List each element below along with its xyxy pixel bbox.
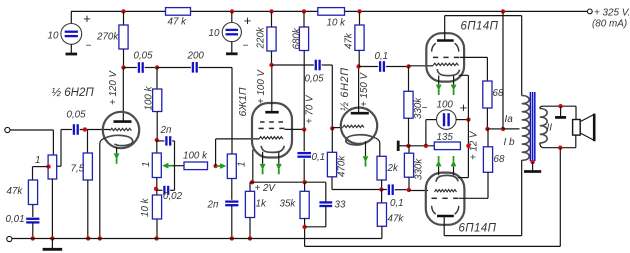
node plate V2 <box>356 64 360 68</box>
svg-text:1k: 1k <box>256 199 267 210</box>
triode V2 cathode <box>346 135 374 145</box>
svg-text:135: 135 <box>437 132 454 143</box>
potentiometer 1M volume P1 <box>48 155 57 179</box>
svg-text:0,01: 0,01 <box>6 214 25 225</box>
svg-text:47k: 47k <box>388 214 405 225</box>
svg-text:68: 68 <box>493 88 504 99</box>
tube VL2 cathode <box>436 175 458 181</box>
node core ground <box>530 160 534 164</box>
svg-text:0,1: 0,1 <box>312 152 326 163</box>
wire plate V2 riser <box>358 67 360 114</box>
triode V1 plate <box>114 120 132 123</box>
triode V1 envelope <box>103 112 139 148</box>
resistor 68 lower <box>487 129 489 147</box>
capacitor 200 <box>157 67 191 69</box>
pentode suppressor dashes <box>260 121 265 123</box>
node P2 ground <box>230 236 234 240</box>
capacitor 100u electrolytic <box>437 110 457 130</box>
node upper grid <box>406 64 410 68</box>
pentode screen dashes <box>259 127 264 129</box>
wire P1 tap to 0,05 grid cap <box>57 165 61 167</box>
pentode plate <box>265 111 278 114</box>
node cathode bus 135 <box>466 144 470 148</box>
svg-text:100: 100 <box>437 100 454 111</box>
tube VL2 envelope <box>426 173 465 225</box>
wire grid V2 <box>332 127 342 129</box>
wiper arrow P3 <box>162 163 168 169</box>
wire pentode cathode node <box>250 180 254 184</box>
resistor 100k horizontal <box>184 162 208 170</box>
wire center tap <box>503 128 520 130</box>
svg-text:−: − <box>243 41 249 52</box>
svg-text:Iа: Iа <box>505 114 514 125</box>
wire 470k to 2k node <box>332 189 381 191</box>
svg-text:47k: 47k <box>344 32 355 49</box>
resistor 470k <box>331 128 333 152</box>
wire VL1 screen <box>460 56 488 58</box>
terminal input signal <box>5 127 10 132</box>
svg-text:+ 100 V: + 100 V <box>256 68 267 104</box>
wire 100k divider <box>156 68 158 90</box>
node e-cap minus riser <box>424 144 428 148</box>
svg-text:100 k: 100 k <box>183 151 208 162</box>
svg-text:200: 200 <box>187 51 205 62</box>
node wiper junction <box>213 164 217 168</box>
resistor 35k feedback <box>304 182 306 191</box>
triode V2 envelope <box>341 108 377 144</box>
node triode V1 plate <box>121 65 125 69</box>
tube VL1 cathode <box>437 69 459 75</box>
svg-text:6Ж1П: 6Ж1П <box>237 87 249 116</box>
svg-text:100 k: 100 k <box>144 85 155 110</box>
svg-text:−: − <box>86 41 92 52</box>
resistor 68 upper <box>483 81 492 108</box>
wire secondary bottom <box>540 143 576 148</box>
node center tap feed <box>501 127 505 131</box>
node secondary bottom feedback <box>558 146 562 150</box>
transformer primary winding <box>522 96 530 161</box>
resistor 135 <box>434 142 460 150</box>
svg-text:½ 6Н2П: ½ 6Н2П <box>339 67 351 111</box>
svg-text:0,1: 0,1 <box>375 51 389 62</box>
node screens <box>485 127 489 131</box>
capacitor 0,01 <box>26 218 39 220</box>
transformer core <box>529 92 531 161</box>
wire VL1 cathode right <box>459 74 469 76</box>
ground main <box>51 238 53 249</box>
tube VL1 plate <box>437 39 454 42</box>
svg-text:10 k: 10 k <box>327 18 347 29</box>
svg-text:½ 6Н2П: ½ 6Н2П <box>52 87 95 99</box>
svg-text:10: 10 <box>209 28 220 39</box>
ground cap C1 <box>231 42 233 54</box>
resistor 330k upper <box>408 67 410 92</box>
resistor 7,5 grid leak <box>87 130 89 154</box>
wire cap C0 to rail <box>70 11 72 23</box>
wire plate V1 <box>122 68 124 122</box>
resistor 100k divider <box>153 89 162 112</box>
node B+ 47k plate load <box>357 9 361 13</box>
wire 200 to pot P2 <box>231 68 233 155</box>
svg-text:1: 1 <box>236 162 247 167</box>
wire ground rail <box>12 238 382 240</box>
capacitor 10u C0 <box>61 24 82 45</box>
wire 680k down (crosses plate wire) <box>303 51 305 130</box>
svg-text:7,5: 7,5 <box>71 164 85 175</box>
svg-text:35k: 35k <box>280 199 297 210</box>
resistor 2k cathode V2 <box>377 156 386 180</box>
transformer secondary winding <box>540 109 547 143</box>
wire to grid node V2 <box>331 65 333 128</box>
wire ecap plus <box>456 119 468 121</box>
pentode grid zigzag <box>259 137 283 139</box>
node +70V screen <box>302 127 306 131</box>
capacitor 0,05 coupling V2 <box>315 60 317 71</box>
svg-text:68: 68 <box>494 154 505 165</box>
node B+ cap C1 <box>230 9 234 13</box>
resistor 330k lower <box>408 146 410 153</box>
wire VL1 grid <box>428 65 433 67</box>
tube VL1 envelope <box>426 33 464 81</box>
triode V2 grid <box>343 125 365 127</box>
pentode envelope <box>252 103 292 158</box>
wire wiper P3 to 100k <box>173 165 184 167</box>
ground cap C0 <box>70 44 72 54</box>
resistor 10k lower <box>152 195 161 219</box>
svg-text:0,05: 0,05 <box>134 51 154 62</box>
svg-text:2п: 2п <box>160 125 172 136</box>
wire lower grid to tube <box>409 190 428 192</box>
svg-text:0,02: 0,02 <box>163 191 183 202</box>
tube VL1 screen dashes <box>433 56 438 58</box>
svg-text:6П14П: 6П14П <box>459 223 497 235</box>
wire pentode plate node right <box>272 64 314 66</box>
wire B+ down to center tap <box>502 11 504 128</box>
wire pentode plate riser <box>271 65 273 112</box>
wire speaker bottom <box>575 135 577 148</box>
wire cap C1 to rail <box>231 11 233 22</box>
node B+ 270k <box>121 9 125 13</box>
wire pentode cathode down <box>252 150 254 183</box>
svg-text:+: + <box>460 100 468 115</box>
svg-text:470k: 470k <box>337 155 348 177</box>
svg-text:+: + <box>83 11 91 26</box>
node B+ 220k <box>269 9 273 13</box>
svg-text:330k: 330k <box>414 158 425 180</box>
potentiometer 1M P3 <box>156 140 158 153</box>
svg-text:220k: 220k <box>256 26 267 49</box>
tube VL2 grid zigzag <box>435 190 457 192</box>
svg-text:2п: 2п <box>207 200 219 211</box>
node grid V1 <box>83 127 87 131</box>
svg-text:1: 1 <box>35 155 40 166</box>
svg-text:0,05: 0,05 <box>67 110 87 121</box>
tube VL2 screen dashes <box>432 197 437 199</box>
terminal input ground <box>7 236 12 241</box>
svg-text:+ 12 V: + 12 V <box>469 130 480 160</box>
node P3 bottom <box>156 178 158 196</box>
pentode heater arrows <box>262 152 264 164</box>
svg-text:0,05: 0,05 <box>305 74 325 85</box>
wire cathode bus <box>467 75 469 177</box>
speaker <box>573 120 581 136</box>
wire input to pot P1 <box>10 129 53 131</box>
node lower grid <box>407 188 411 192</box>
heater arrow V2 <box>365 141 367 156</box>
svg-text:6П14П: 6П14П <box>461 21 499 33</box>
resistor 680k <box>303 11 305 27</box>
capacitor 0,05 coupling <box>124 67 137 69</box>
resistor 47k plate load V2 <box>359 11 361 25</box>
wiper arrow P2 <box>220 163 226 169</box>
svg-text:+ 325 V.: + 325 V. <box>594 8 630 19</box>
capacitor 0,1 upper coupling <box>359 66 379 68</box>
capacitor 0,02 <box>156 189 162 191</box>
resistor 10k (rail filter) <box>318 8 345 16</box>
wire cathode V2 right <box>374 137 380 156</box>
triode V1 grid <box>110 128 132 130</box>
wire speaker top <box>575 106 577 119</box>
node 7,5 ground <box>86 236 90 240</box>
svg-text:270k: 270k <box>96 32 119 43</box>
wire pentode screen to 680k node <box>285 128 305 130</box>
wire VL2 cathode right <box>458 177 469 179</box>
node bias junction <box>406 144 410 148</box>
wire 2n riser <box>174 141 176 190</box>
svg-text:10: 10 <box>48 31 59 42</box>
wire VL2 screen <box>459 197 488 199</box>
triode V1 cathode <box>105 135 133 145</box>
svg-text:+ 150 V: + 150 V <box>359 71 370 107</box>
node V1 cathode ground <box>98 236 102 240</box>
node pot P3 top <box>155 138 159 142</box>
svg-text:+ 70 V: + 70 V <box>305 94 316 124</box>
svg-text:+: + <box>244 13 252 28</box>
svg-text:680k: 680k <box>292 27 303 49</box>
wire secondary top <box>540 106 576 108</box>
heater arrows VL2 <box>438 166 440 175</box>
terminal +325V <box>587 9 592 14</box>
pentode cathode <box>261 146 284 153</box>
heater arrow V1 <box>116 147 118 154</box>
resistor 47k input <box>28 180 37 205</box>
node secondary top <box>558 104 562 108</box>
wire +2V bus <box>252 181 304 183</box>
node B+ output stage <box>501 9 505 13</box>
node cathode bus ecap <box>466 117 470 121</box>
svg-text:1: 1 <box>141 162 152 167</box>
wire pot P1 bottom <box>51 179 53 238</box>
ground secondary top <box>560 106 562 117</box>
node 1k ground <box>248 236 252 240</box>
svg-text:−: − <box>422 103 428 114</box>
wire feedback from secondary <box>559 148 561 247</box>
triode V2 plate <box>351 112 369 115</box>
capacitor 0,1 lower coupling <box>381 189 387 191</box>
wire cathode V1 to ground rail <box>100 138 105 238</box>
node P1 wiper <box>46 164 50 168</box>
svg-text:I b: I b <box>504 137 516 148</box>
svg-text:2k: 2k <box>387 163 399 174</box>
svg-text:33: 33 <box>335 200 346 211</box>
tube VL2 beam plates <box>432 206 436 214</box>
capacitor 33 feedback <box>305 181 326 183</box>
tube VL1 grid zigzag <box>433 63 459 65</box>
node +2V 35k <box>302 180 306 184</box>
svg-text:10 k: 10 k <box>140 197 151 217</box>
wire screens to center tap <box>487 128 503 130</box>
resistor 47k lower grid leak <box>381 190 383 203</box>
capacitor 10u C1 <box>222 22 241 41</box>
tube VL1 beam plates <box>432 43 436 51</box>
node P1 ground <box>50 236 54 240</box>
tube VL2 plate <box>437 215 454 218</box>
node pentode plate <box>269 63 273 67</box>
svg-text:47k: 47k <box>7 186 24 197</box>
ground bias network <box>398 145 408 147</box>
wire B+ rail top <box>71 10 589 12</box>
resistor 270k <box>123 11 125 25</box>
wire grid riser 6Zh1P <box>215 139 217 166</box>
svg-text:0,1: 0,1 <box>390 198 404 209</box>
resistor 47k (rail filter) <box>166 8 191 16</box>
ground transformer core <box>532 162 534 172</box>
wire upper grid to tube <box>409 65 429 67</box>
capacitor 2n lower (P2 bottom) <box>231 179 233 200</box>
wire to grid V1 <box>80 129 110 131</box>
svg-text:(80 mA): (80 mA) <box>592 19 627 30</box>
node 35k bottom <box>302 225 306 229</box>
node 0,01 ground <box>31 236 35 240</box>
wire VL2 plate to transformer <box>443 216 445 236</box>
capacitor 0,1 screen bypass <box>303 129 305 151</box>
svg-text:+ 120 V: + 120 V <box>108 69 119 105</box>
capacitor 2n upper <box>157 140 165 142</box>
node 2k bottom <box>379 187 383 191</box>
node 100k top <box>155 65 159 69</box>
heater arrows VL1 <box>438 76 440 85</box>
capacitor 0,05 grid V1 <box>73 124 75 135</box>
node 10k ground <box>154 236 158 240</box>
wire VL1 plate to transformer <box>444 16 446 41</box>
wire bias junction to e-cap <box>409 145 435 147</box>
svg-text:II: II <box>547 123 553 134</box>
resistor 1k cathode <box>250 181 252 183</box>
node grid V2 <box>330 126 334 130</box>
potentiometer 1M P2 <box>231 154 233 179</box>
node B+ 680k <box>302 9 306 13</box>
wire P1 wiper to 47k <box>33 166 49 168</box>
resistor 220k <box>271 11 273 27</box>
svg-text:47 k: 47 k <box>168 17 188 28</box>
svg-text:+ 2V: + 2V <box>255 183 277 194</box>
